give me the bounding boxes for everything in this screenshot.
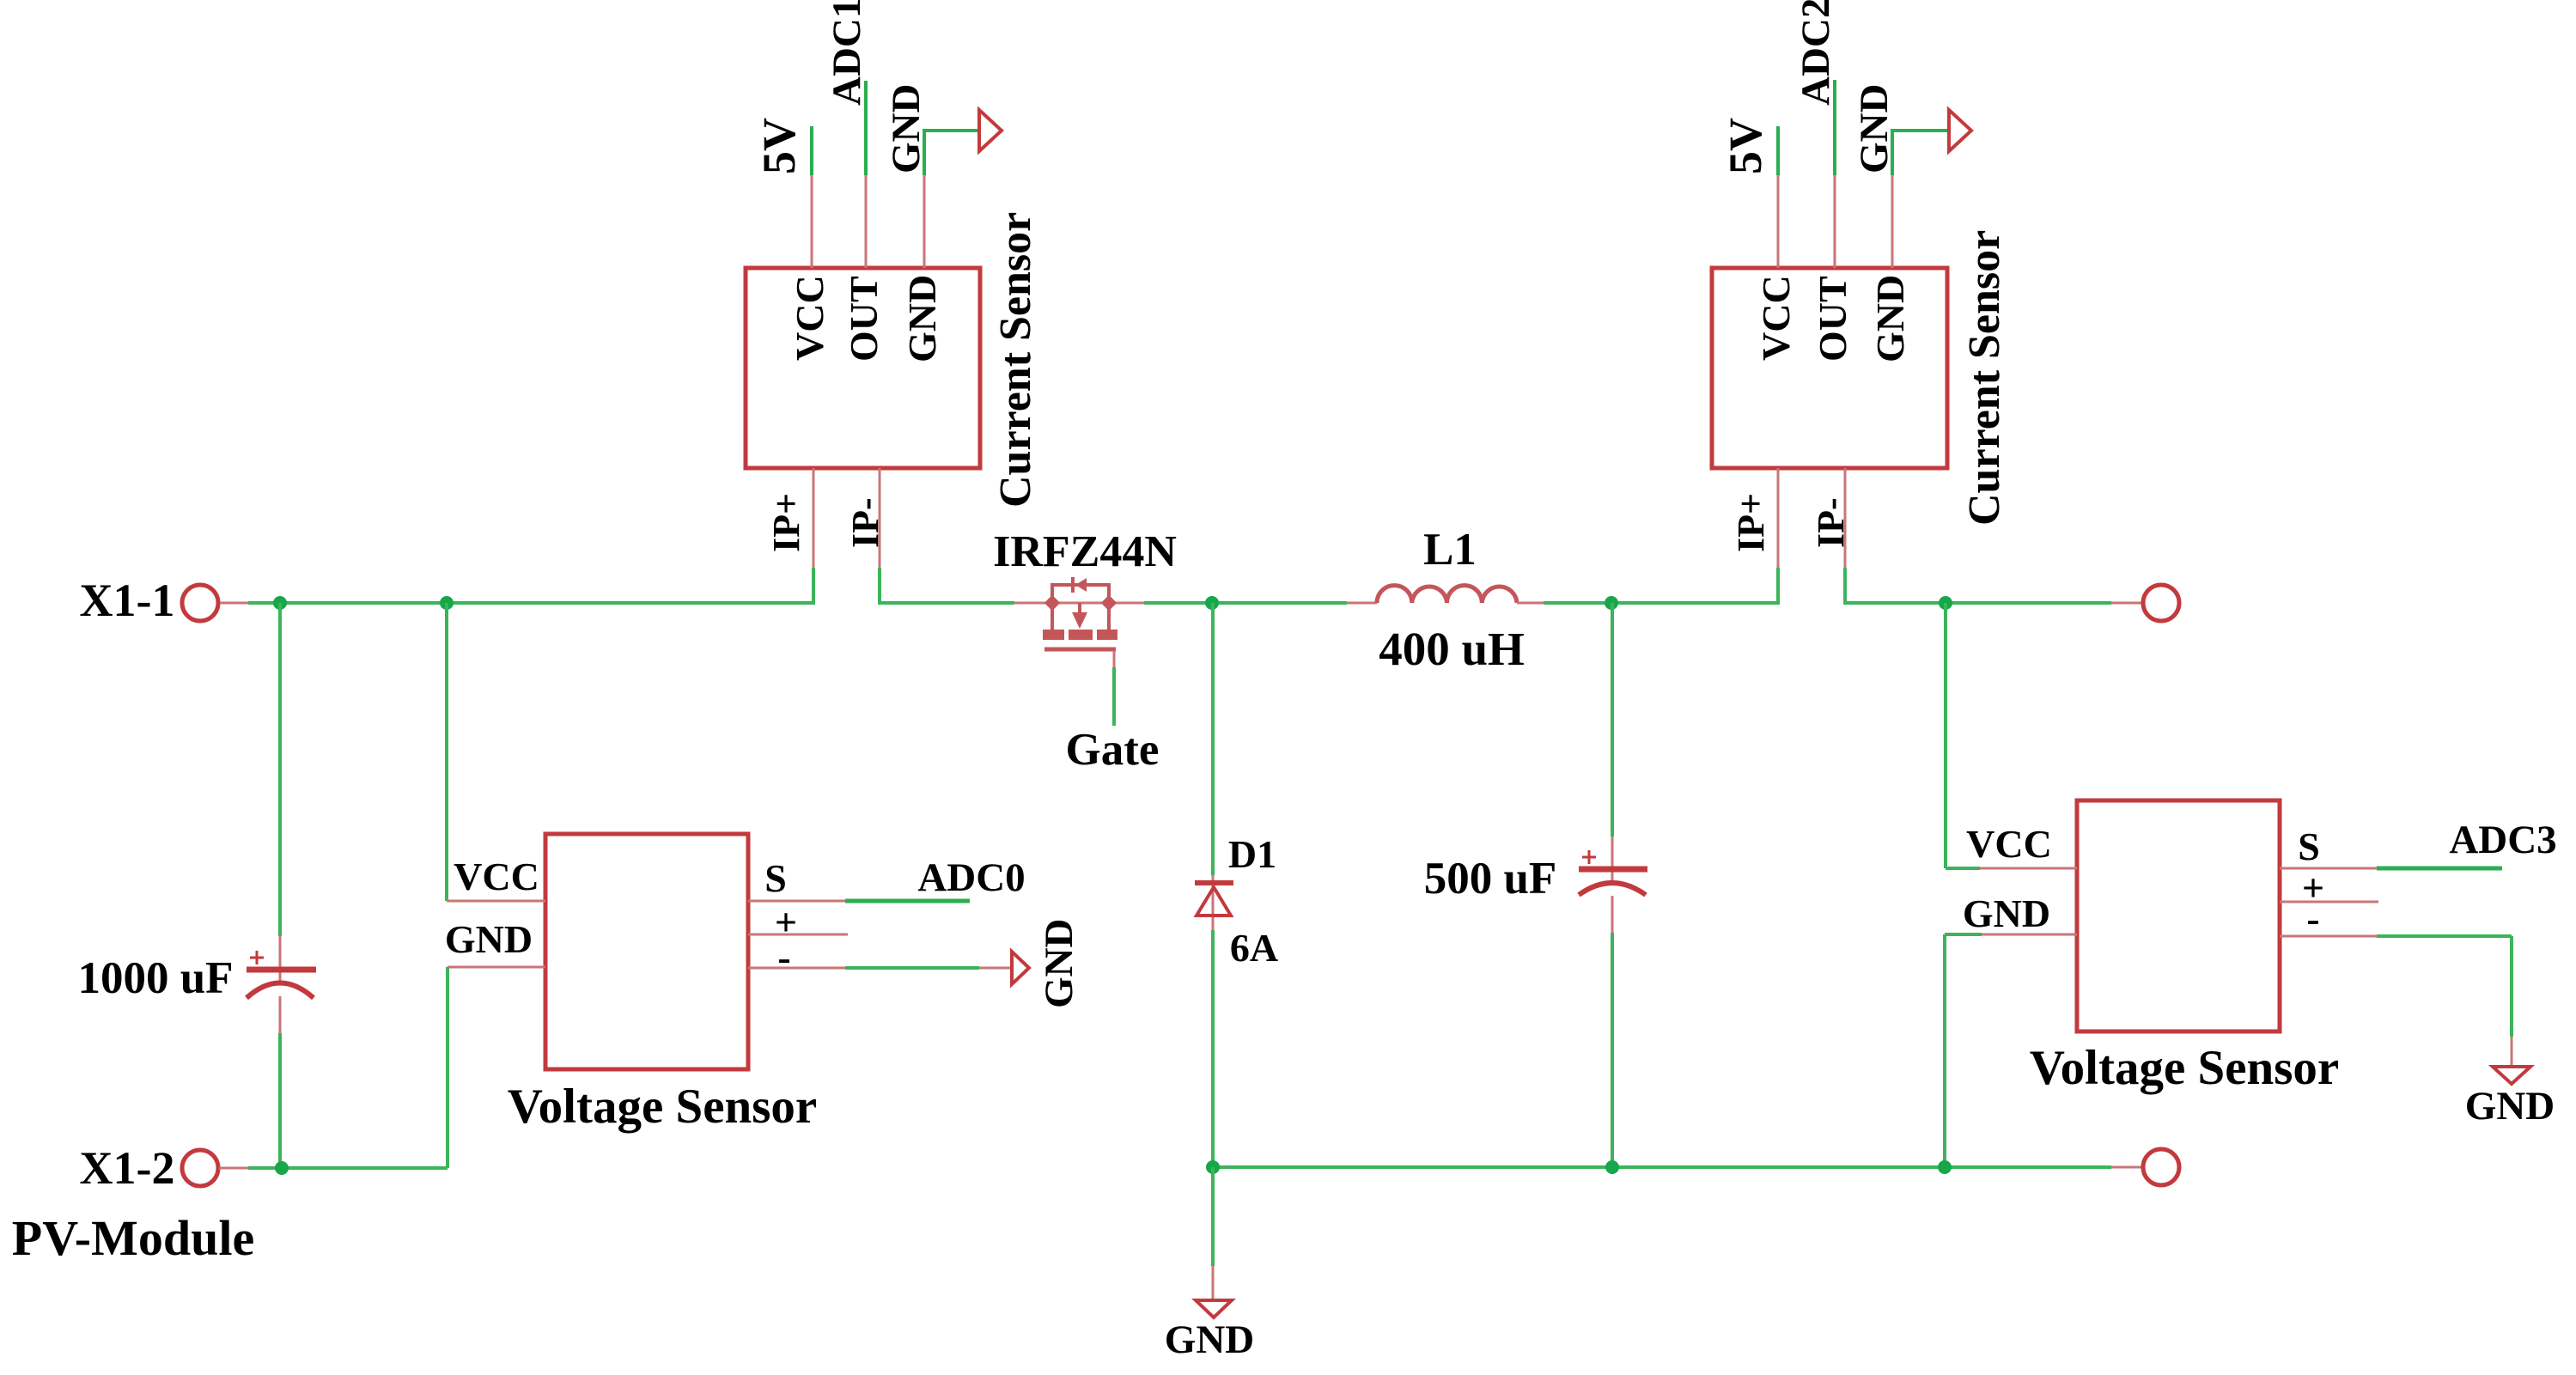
svg-text:1000 uF: 1000 uF bbox=[77, 953, 233, 1003]
ground arrow U3 GND bbox=[1949, 110, 1971, 151]
svg-text:GND: GND bbox=[884, 84, 929, 173]
wire U4 VCC drop bbox=[1946, 603, 1980, 868]
pin U4 + bbox=[2280, 901, 2378, 903]
label U3 pin GND bbox=[1868, 275, 1912, 362]
node bottom rail / C2 bbox=[1605, 1160, 1619, 1174]
node top rail / D1 bbox=[1205, 596, 1219, 610]
svg-text:Voltage Sensor: Voltage Sensor bbox=[2030, 1041, 2339, 1095]
label X1-2 bbox=[80, 1142, 175, 1194]
svg-text:S: S bbox=[2298, 824, 2320, 868]
wire output - stub bbox=[2111, 1166, 2142, 1169]
label 5V bbox=[753, 118, 805, 174]
label 1000 uF bbox=[77, 953, 233, 1003]
label U3 pin OUT bbox=[1811, 276, 1854, 362]
current sensor U3 box bbox=[1712, 268, 1947, 468]
svg-text:IP+: IP+ bbox=[765, 493, 807, 552]
svg-text:OUT: OUT bbox=[842, 276, 886, 362]
label GND U4 bbox=[1963, 891, 2050, 935]
svg-text:400 uH: 400 uH bbox=[1379, 623, 1525, 675]
node top rail / C2 bbox=[1605, 596, 1618, 610]
label S U2 bbox=[764, 856, 787, 900]
label + U4 bbox=[2302, 866, 2324, 910]
svg-text:IP-: IP- bbox=[1810, 497, 1852, 548]
pin U4 GND bbox=[1982, 934, 2077, 936]
terminal output - bbox=[2143, 1149, 2179, 1185]
svg-text:GND: GND bbox=[1852, 84, 1897, 173]
svg-text:ADC1: ADC1 bbox=[825, 0, 869, 106]
svg-text:PV-Module: PV-Module bbox=[12, 1210, 254, 1266]
svg-text:GND: GND bbox=[1165, 1317, 1254, 1362]
svg-text:ADC0: ADC0 bbox=[917, 855, 1025, 900]
wire D1 top lead bbox=[1211, 603, 1215, 930]
svg-text:GND: GND bbox=[445, 917, 533, 961]
label ADC3 bbox=[2449, 818, 2556, 862]
svg-text:IRFZ44N: IRFZ44N bbox=[993, 527, 1177, 576]
wire bottom rail right bbox=[1213, 1165, 2111, 1169]
diode D1 bbox=[1195, 883, 1233, 916]
wire C1 bottom lead bbox=[279, 996, 282, 1168]
label U3 pin VCC bbox=[1754, 275, 1798, 361]
svg-text:Voltage Sensor: Voltage Sensor bbox=[508, 1080, 817, 1134]
ground arrow U2 bbox=[1012, 952, 1029, 984]
terminal X1-2 bbox=[182, 1150, 248, 1186]
svg-text:500 uF: 500 uF bbox=[1424, 854, 1557, 903]
ground arrow GND bbox=[1196, 1300, 1232, 1317]
svg-text:VCC: VCC bbox=[1754, 275, 1798, 361]
pin U3 OUT bbox=[1834, 80, 1836, 268]
wire output + stub bbox=[2111, 602, 2142, 605]
svg-text:D1: D1 bbox=[1228, 832, 1276, 876]
label VCC U4 bbox=[1966, 822, 2052, 866]
svg-text:Gate: Gate bbox=[1066, 725, 1160, 775]
wire C2 top lead bbox=[1611, 603, 1614, 881]
pin U3 GND bbox=[1892, 129, 1949, 268]
label IRFZ44N bbox=[993, 527, 1177, 576]
node bottom rail / U4 GND bbox=[1938, 1160, 1952, 1174]
svg-text:GND: GND bbox=[1868, 275, 1912, 362]
svg-text:-: - bbox=[777, 935, 790, 979]
label IP+ U1 bbox=[765, 493, 807, 552]
wire gate stub bbox=[1113, 651, 1116, 726]
label Voltage Sensor U2 bbox=[508, 1080, 817, 1134]
label U1 pin VCC bbox=[788, 275, 831, 361]
svg-text:VCC: VCC bbox=[1966, 822, 2052, 866]
pin U1 OUT bbox=[865, 81, 868, 268]
svg-text:ADC3: ADC3 bbox=[2449, 818, 2556, 862]
svg-text:5V: 5V bbox=[753, 118, 805, 174]
label GND U4 out bbox=[2465, 1084, 2555, 1129]
wire GND stub bbox=[1211, 1167, 1215, 1299]
svg-text:Current Sensor: Current Sensor bbox=[991, 212, 1040, 508]
wire top rail right1 bbox=[1544, 601, 1778, 605]
node top rail / VCC drop bbox=[440, 596, 454, 610]
label 6A bbox=[1230, 926, 1278, 970]
pin U2 GND bbox=[448, 966, 545, 969]
svg-text:5V: 5V bbox=[1720, 118, 1771, 174]
svg-text:GND: GND bbox=[1037, 919, 1081, 1008]
wire VCC drop to U2 bbox=[445, 603, 448, 901]
pin U1 VCC bbox=[811, 126, 813, 268]
voltage sensor U4 box bbox=[2077, 800, 2280, 1031]
wire bottom rail left bbox=[248, 1166, 448, 1170]
label Gate bbox=[1066, 725, 1160, 775]
svg-text:GND: GND bbox=[2465, 1084, 2555, 1129]
pin U2 - bbox=[748, 967, 1010, 970]
svg-text:-: - bbox=[2306, 897, 2319, 940]
wire top rail mid1 bbox=[880, 601, 1014, 605]
svg-text:L1: L1 bbox=[1423, 525, 1477, 575]
label IP- U1 bbox=[844, 497, 886, 548]
terminal output + bbox=[2143, 585, 2179, 621]
pin U3 IP- bbox=[1844, 468, 1847, 605]
label ADC2 bbox=[1793, 0, 1838, 106]
label 400 uH bbox=[1379, 623, 1525, 675]
label Voltage Sensor U4 bbox=[2030, 1041, 2339, 1095]
label 500 uF bbox=[1424, 854, 1557, 903]
pin U4 - bbox=[2280, 936, 2512, 1065]
wire U2 GND drop bbox=[446, 967, 449, 1168]
svg-text:IP-: IP- bbox=[844, 497, 886, 548]
wire D1 bottom lead bbox=[1211, 930, 1215, 1167]
ground arrow U4 bbox=[2493, 1067, 2530, 1084]
wire C1 top lead bbox=[278, 603, 282, 982]
svg-text:X1-2: X1-2 bbox=[80, 1142, 175, 1194]
label 5V U3 bbox=[1720, 118, 1771, 174]
terminal X1-1 bbox=[182, 585, 248, 621]
transistor Q1 IRFZ44N bbox=[1014, 577, 1144, 649]
label D1 bbox=[1228, 832, 1276, 876]
ground arrow U1 GND bbox=[979, 110, 1002, 151]
label VCC U2 bbox=[454, 855, 539, 898]
label Current Sensor U1 bbox=[991, 212, 1040, 508]
label ADC0 bbox=[917, 855, 1025, 900]
label - U4 bbox=[2306, 897, 2319, 940]
svg-text:GND: GND bbox=[900, 275, 944, 362]
label L1 bbox=[1423, 525, 1477, 575]
capacitor C1 1000uF bbox=[247, 951, 316, 998]
label - U2 bbox=[777, 935, 790, 979]
wire top rail right2 bbox=[1845, 601, 2111, 605]
wire U4 GND drop bbox=[1945, 934, 1982, 1167]
svg-text:6A: 6A bbox=[1230, 926, 1278, 970]
svg-text:X1-1: X1-1 bbox=[80, 575, 175, 626]
pin U1 IP+ bbox=[813, 468, 815, 605]
svg-text:VCC: VCC bbox=[454, 855, 539, 898]
label IP+ U3 bbox=[1730, 493, 1772, 552]
pin U1 GND bbox=[924, 129, 979, 268]
voltage sensor U2 box bbox=[545, 834, 748, 1069]
capacitor C2 500uF bbox=[1579, 850, 1647, 895]
label IP- U3 bbox=[1810, 497, 1852, 548]
label + U2 bbox=[775, 900, 797, 944]
label S U4 bbox=[2298, 824, 2320, 868]
label PV-Module bbox=[12, 1210, 254, 1266]
wire top rail left bbox=[248, 601, 813, 605]
label GND U1 bbox=[884, 84, 929, 173]
pin U4 VCC bbox=[1980, 867, 2077, 870]
svg-text:VCC: VCC bbox=[788, 275, 831, 361]
label X1-1 bbox=[80, 575, 175, 626]
label GND U2 out bbox=[1037, 919, 1081, 1008]
label ADC1 bbox=[825, 0, 869, 106]
pin U2 + bbox=[748, 934, 848, 936]
svg-text:Current Sensor: Current Sensor bbox=[1960, 230, 2009, 526]
label U1 pin OUT bbox=[842, 276, 886, 362]
current sensor U1 box bbox=[746, 268, 980, 468]
pin U1 IP- bbox=[879, 468, 881, 605]
label GND U3 bbox=[1852, 84, 1897, 173]
pin U2 S bbox=[748, 900, 970, 903]
pin U3 VCC bbox=[1777, 126, 1780, 268]
label U1 pin GND bbox=[900, 275, 944, 362]
label GND bottom bbox=[1165, 1317, 1254, 1362]
pin U2 VCC bbox=[447, 900, 545, 903]
label Current Sensor U3 bbox=[1960, 230, 2009, 526]
node bottom rail / C1 bbox=[275, 1161, 289, 1175]
label GND U2 bbox=[445, 917, 533, 961]
node top rail / U4 VCC bbox=[1939, 596, 1952, 610]
wire top rail mid2 bbox=[1144, 601, 1347, 605]
svg-text:IP+: IP+ bbox=[1730, 493, 1772, 552]
node bottom rail / D1 bbox=[1206, 1160, 1220, 1174]
inductor L1 bbox=[1347, 586, 1544, 603]
wire C2 bottom lead bbox=[1611, 896, 1614, 1167]
svg-text:S: S bbox=[764, 856, 787, 900]
pin U4 S bbox=[2280, 867, 2502, 870]
svg-text:ADC2: ADC2 bbox=[1793, 0, 1838, 106]
node top rail / C1 bbox=[273, 596, 287, 610]
svg-text:OUT: OUT bbox=[1811, 276, 1854, 362]
pin U3 IP+ bbox=[1777, 468, 1780, 605]
svg-text:GND: GND bbox=[1963, 891, 2050, 935]
